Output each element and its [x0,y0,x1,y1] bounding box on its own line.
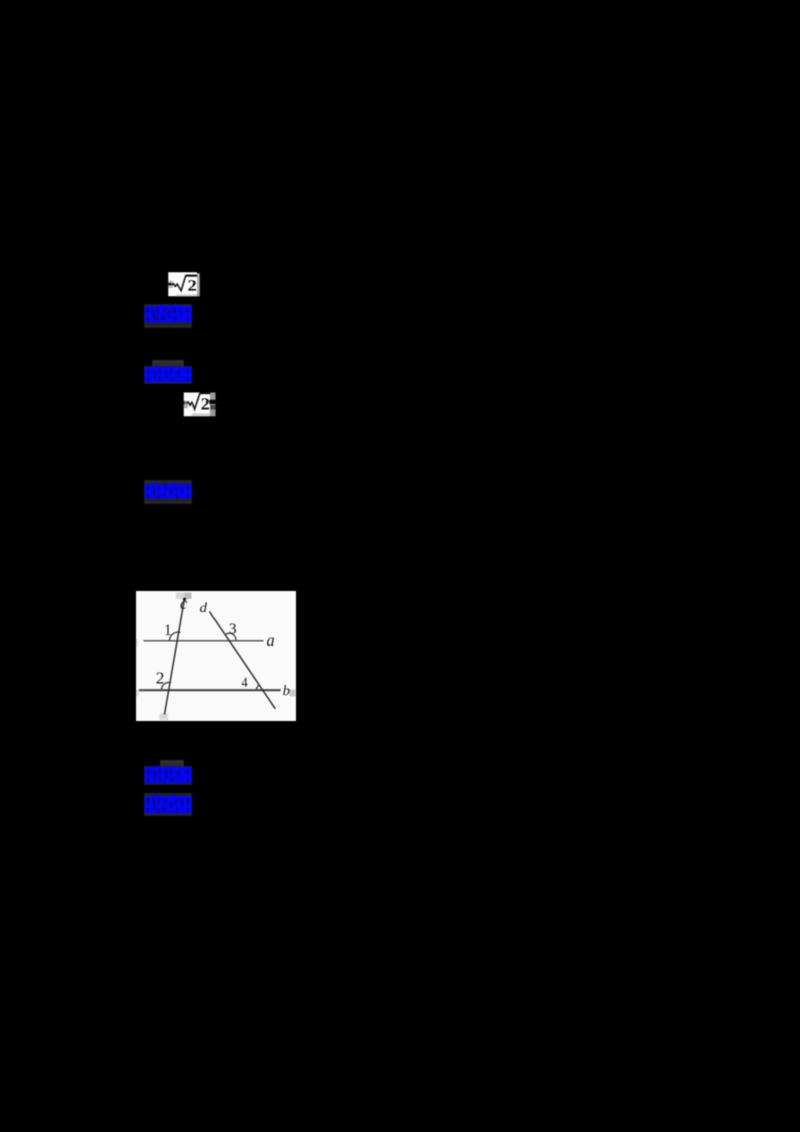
selection handle top [176,592,185,599]
label b [283,685,289,695]
angle 1 arc [170,632,181,640]
selection handle bottom [160,713,169,720]
line d [210,611,276,708]
selection handle right [290,689,296,696]
blue label 2 [152,360,184,367]
diagram white background [136,591,296,721]
angle 2 arc [162,682,172,689]
line b [139,689,281,691]
label 2 [156,672,163,683]
formula sqrt(2) #1 [164,272,200,297]
dot at top of line c [183,597,186,600]
label d [200,602,207,612]
line c [165,600,185,715]
selection handle left-b [136,689,139,696]
line a [144,639,264,641]
label 1 [165,624,170,635]
blue label 5 [144,793,192,816]
blue label 4 [160,760,184,767]
formula sqrt(2) #2 [180,392,220,417]
label c [180,601,187,609]
angle 4 arc [257,684,260,689]
blue label 1 [144,304,192,328]
geometry diagram: parallel lines a,b cut by transversals c,d [136,591,296,721]
blue label 3 [144,480,192,504]
label 4 [242,677,248,686]
label 3 [230,623,236,633]
angle 3 arc [226,633,236,640]
selection handle left-a [136,639,138,646]
label a [267,637,274,646]
